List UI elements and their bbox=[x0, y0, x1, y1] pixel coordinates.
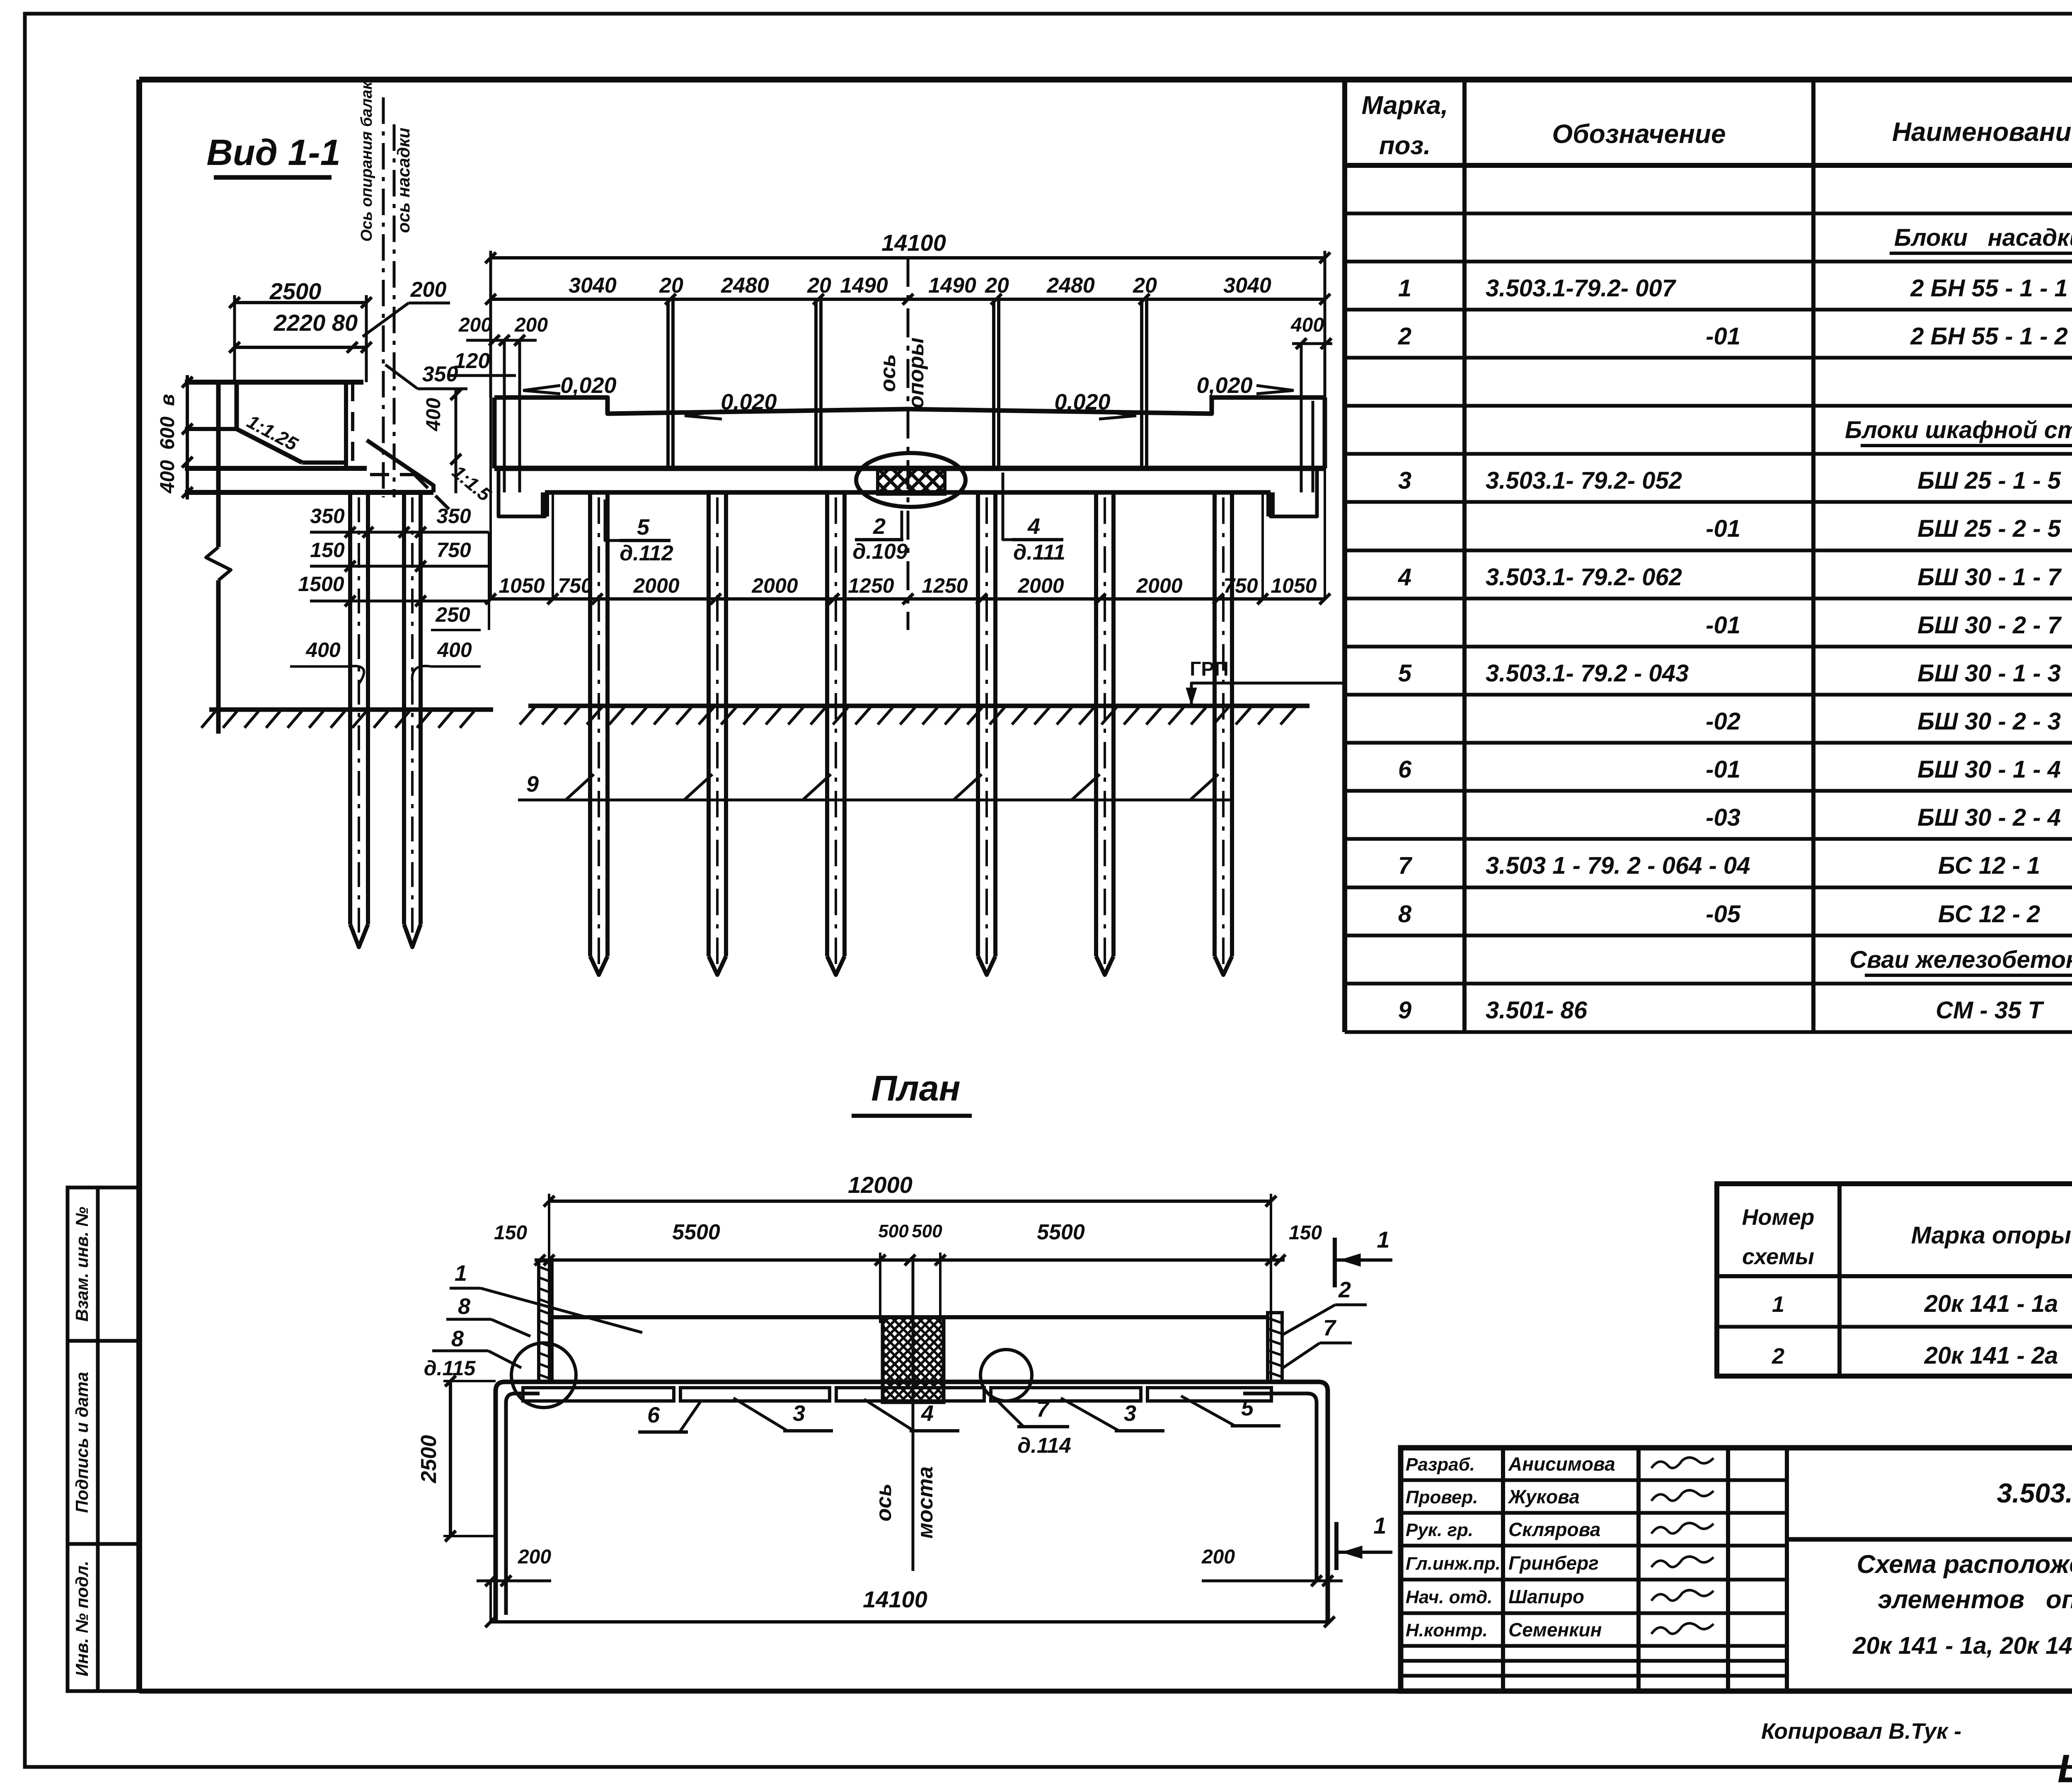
svg-text:БШ 30 - 2 - 4: БШ 30 - 2 - 4 bbox=[1917, 804, 2061, 831]
elev dim 14100 line bbox=[485, 251, 1330, 397]
svg-text:2500: 2500 bbox=[269, 278, 322, 304]
elev end block right bbox=[1271, 468, 1317, 516]
svg-text:250: 250 bbox=[435, 603, 470, 626]
svg-text:-03: -03 bbox=[1706, 804, 1740, 831]
svg-text:1: 1 bbox=[1373, 1512, 1386, 1539]
elev cap right edge bbox=[1323, 397, 1327, 468]
axis os nasadki bbox=[394, 124, 413, 497]
vid section cap bottom bbox=[185, 466, 367, 471]
svg-text:3: 3 bbox=[1398, 467, 1411, 494]
plan left end block hatched bbox=[539, 1261, 552, 1382]
title block signature labels bbox=[1406, 1453, 1615, 1641]
svg-text:350: 350 bbox=[422, 362, 458, 386]
spec row 6a bbox=[1706, 804, 2072, 831]
vid hidden dashes horizontal bbox=[370, 473, 414, 476]
svg-text:Семенкин: Семенкин bbox=[1508, 1619, 1602, 1641]
svg-text:2480: 2480 bbox=[721, 274, 769, 298]
plan pos label 7 right bbox=[1283, 1316, 1352, 1368]
svg-text:Схема расположения: Схема расположения bbox=[1857, 1550, 2072, 1579]
svg-text:2500: 2500 bbox=[417, 1435, 441, 1483]
elev pile 2 bbox=[709, 492, 726, 975]
svg-text:750: 750 bbox=[436, 538, 471, 562]
svg-text:1: 1 bbox=[1772, 1292, 1784, 1317]
elev pile 5 bbox=[1096, 492, 1113, 975]
plan pos label 3 left bbox=[733, 1398, 833, 1431]
svg-text:д.109: д.109 bbox=[852, 540, 908, 564]
svg-text:20к 141 - 1а: 20к 141 - 1а bbox=[1924, 1290, 2058, 1317]
schema table header texts bbox=[1742, 1205, 2072, 1269]
vid section step level line bbox=[185, 427, 237, 431]
svg-text:400: 400 bbox=[157, 460, 179, 494]
svg-text:1: 1 bbox=[1377, 1226, 1389, 1253]
vid leader 200 bbox=[363, 278, 450, 337]
spec row 4 bbox=[1398, 564, 2072, 591]
svg-text:3.503.1- 79.2 - 043: 3.503.1- 79.2 - 043 bbox=[1486, 660, 1689, 687]
plan back wall line bbox=[549, 1315, 1268, 1319]
svg-text:опоры: опоры bbox=[904, 337, 928, 408]
plan center hatched block bbox=[787, 1317, 1029, 1402]
svg-text:Марка опоры: Марка опоры bbox=[1911, 1222, 2071, 1249]
svg-text:План: План bbox=[871, 1069, 960, 1108]
elev dim segments line bbox=[485, 294, 1330, 305]
svg-text:2480: 2480 bbox=[1046, 274, 1095, 298]
vid section ledge line bbox=[302, 460, 347, 465]
plan outer outline bbox=[496, 1382, 1328, 1622]
plan detail circle right bbox=[980, 1350, 1032, 1401]
left margin box divider y=3235 bbox=[68, 1339, 139, 1343]
svg-text:ось: ось bbox=[872, 1483, 896, 1522]
elev label 9 line bbox=[518, 772, 1231, 800]
svg-text:7: 7 bbox=[1323, 1316, 1337, 1340]
svg-text:2: 2 bbox=[1338, 1277, 1351, 1302]
plan section marker top bbox=[1335, 1226, 1392, 1287]
spec row 6 bbox=[1398, 756, 2072, 783]
schema table verticals bbox=[1840, 1184, 2072, 1376]
svg-text:400: 400 bbox=[1290, 314, 1324, 336]
elev slope label 2 bbox=[685, 390, 777, 419]
svg-text:8: 8 bbox=[451, 1326, 464, 1351]
svg-text:750: 750 bbox=[1223, 574, 1258, 597]
svg-text:400: 400 bbox=[423, 398, 445, 431]
elev shelf band bottom bbox=[545, 490, 1271, 495]
elev cap bottom bbox=[494, 466, 1325, 471]
vid section slope 1-1.25 bbox=[237, 429, 302, 463]
left margin box divider y=3725 bbox=[68, 1542, 139, 1546]
svg-text:д.114: д.114 bbox=[1017, 1434, 1071, 1458]
svg-text:3040: 3040 bbox=[569, 274, 617, 298]
vid solid slope bbox=[367, 440, 433, 492]
svg-text:ось: ось bbox=[876, 354, 900, 392]
vid ground line bbox=[201, 710, 493, 728]
svg-text:200: 200 bbox=[518, 1546, 551, 1568]
svg-text:6: 6 bbox=[1398, 756, 1412, 783]
svg-text:400: 400 bbox=[305, 638, 341, 662]
svg-text:1: 1 bbox=[1398, 275, 1411, 302]
elev left end dims 200 200 bbox=[458, 314, 548, 492]
svg-text:0,020: 0,020 bbox=[1196, 373, 1252, 398]
elev cap top outline bbox=[494, 397, 1325, 414]
svg-text:1250: 1250 bbox=[848, 574, 894, 597]
svg-text:БШ 30 - 1 - 4: БШ 30 - 1 - 4 bbox=[1917, 756, 2061, 783]
svg-text:1050: 1050 bbox=[499, 574, 545, 597]
spec table header texts bbox=[1362, 80, 2072, 160]
svg-text:Инв. № подл.: Инв. № подл. bbox=[72, 1561, 92, 1676]
svg-text:500: 500 bbox=[878, 1221, 909, 1241]
plan section marker bottom bbox=[1336, 1512, 1392, 1570]
elev center hatched block bbox=[850, 468, 974, 494]
svg-text:Провер.: Провер. bbox=[1406, 1487, 1478, 1507]
svg-text:2000: 2000 bbox=[1136, 574, 1182, 597]
spec row group heading Bloki nasadki bbox=[1890, 224, 2072, 253]
svg-text:Блоки шкафной стенки: Блоки шкафной стенки bbox=[1845, 417, 2072, 443]
svg-text:Вид 1-1: Вид 1-1 bbox=[206, 132, 340, 173]
plan right end block hatched bbox=[1268, 1313, 1282, 1382]
left margin box divider x=236 bbox=[96, 1187, 100, 1691]
plan detail circle left bbox=[511, 1343, 576, 1408]
spec row 4a bbox=[1706, 612, 2072, 639]
svg-text:1050: 1050 bbox=[1271, 574, 1317, 597]
svg-text:3.503.1-79.1-014: 3.503.1-79.1-014 bbox=[1997, 1478, 2072, 1508]
spec row 9 bbox=[1398, 997, 2072, 1024]
svg-text:7: 7 bbox=[1036, 1397, 1050, 1422]
svg-text:2 БН 55 - 1 - 1: 2 БН 55 - 1 - 1 bbox=[1910, 275, 2068, 302]
svg-text:д.115: д.115 bbox=[424, 1357, 476, 1380]
svg-text:750: 750 bbox=[558, 574, 593, 597]
vid section left edge bbox=[216, 382, 221, 547]
svg-text:3: 3 bbox=[793, 1401, 805, 1426]
title block left row lines bbox=[1401, 1480, 1787, 1676]
axis os opiraniya balok bbox=[358, 81, 383, 497]
elev pile 1 bbox=[590, 492, 608, 975]
plan title underline bbox=[852, 1114, 972, 1118]
svg-text:8: 8 bbox=[1398, 901, 1412, 928]
svg-text:Рук. гр.: Рук. гр. bbox=[1406, 1520, 1473, 1540]
svg-text:Анисимова: Анисимова bbox=[1508, 1453, 1615, 1475]
schema table row lines bbox=[1717, 1276, 2072, 1327]
spec table header bottom bbox=[1345, 163, 2072, 168]
svg-text:БС 12 - 1: БС 12 - 1 bbox=[1938, 852, 2041, 879]
svg-text:Блоки насадки: Блоки насадки bbox=[1894, 224, 2072, 251]
vid hidden slope 1:1.5 dashed bbox=[414, 475, 452, 512]
plan dim 200 right bbox=[1201, 1546, 1343, 1586]
elev slope label 3 bbox=[1054, 390, 1136, 419]
svg-text:1500: 1500 bbox=[298, 572, 344, 596]
svg-text:150: 150 bbox=[1289, 1222, 1322, 1244]
vid dim 150 750 line bbox=[310, 538, 489, 572]
svg-text:14100: 14100 bbox=[881, 230, 946, 256]
svg-text:БС 12 - 2: БС 12 - 2 bbox=[1938, 901, 2041, 928]
plan inner outline right bbox=[1243, 1393, 1317, 1581]
svg-text:-01: -01 bbox=[1706, 756, 1740, 783]
vid left dim labels bbox=[157, 394, 179, 494]
plan dim 200 left bbox=[477, 1546, 551, 1622]
elev cap left edge bbox=[492, 397, 497, 468]
svg-text:350: 350 bbox=[310, 504, 345, 528]
svg-text:0,020: 0,020 bbox=[721, 390, 777, 414]
vid dim 2220 80 text bbox=[274, 310, 358, 336]
svg-text:120: 120 bbox=[454, 349, 490, 373]
svg-text:-01: -01 bbox=[1706, 612, 1740, 639]
vid dim line 120 bbox=[450, 374, 516, 377]
svg-text:-02: -02 bbox=[1706, 708, 1740, 735]
drawing frame bottom line bbox=[139, 1689, 2072, 1694]
svg-text:БШ 25 - 1 - 5: БШ 25 - 1 - 5 bbox=[1917, 467, 2061, 494]
vid dim 2220 line bbox=[229, 342, 372, 353]
drawing frame top line bbox=[139, 77, 2072, 82]
svg-text:200: 200 bbox=[1201, 1546, 1235, 1568]
svg-text:5: 5 bbox=[1398, 660, 1412, 687]
svg-text:Марка,: Марка, bbox=[1362, 91, 1448, 120]
svg-text:д.111: д.111 bbox=[1013, 540, 1065, 565]
vid dim 350 350 line bbox=[310, 504, 489, 538]
svg-text:1: 1 bbox=[455, 1261, 467, 1286]
spec row group heading Svai zhelezobetonnye bbox=[1849, 946, 2072, 975]
svg-text:200: 200 bbox=[410, 278, 447, 302]
plan pos label 5 bbox=[1181, 1396, 1280, 1426]
svg-text:БШ 30 - 2 - 7: БШ 30 - 2 - 7 bbox=[1917, 612, 2062, 639]
svg-text:1490: 1490 bbox=[928, 274, 976, 298]
plan pos label 7 d114 bbox=[995, 1397, 1071, 1458]
svg-text:Обозначение: Обозначение bbox=[1552, 119, 1726, 149]
vid dim 400 vertical right bbox=[423, 389, 461, 493]
vid section left edge lower bbox=[216, 580, 221, 734]
vid dim 1500 line bbox=[298, 572, 489, 606]
vid pile A bbox=[350, 492, 368, 947]
title block outline bbox=[1401, 1448, 2072, 1691]
spec table row lines bbox=[1345, 213, 2072, 1032]
svg-text:Копировал В.Тук -: Копировал В.Тук - bbox=[1761, 1719, 1961, 1744]
svg-text:2: 2 bbox=[1398, 323, 1411, 350]
elev label 2 d109 bbox=[852, 511, 908, 564]
title block signatures squiggles bbox=[1651, 1457, 1714, 1634]
vid section top edge bbox=[185, 380, 363, 385]
elev slope label 1 bbox=[523, 373, 617, 398]
svg-text:20: 20 bbox=[1133, 274, 1157, 298]
plan bridge axis bbox=[912, 1256, 915, 1571]
elev ground line bbox=[520, 706, 1310, 725]
elev pile 4 bbox=[978, 492, 995, 975]
svg-text:400: 400 bbox=[437, 638, 472, 662]
svg-text:2: 2 bbox=[1772, 1344, 1784, 1369]
vid 1-1 title underline bbox=[214, 175, 332, 180]
spec row 8 bbox=[1398, 901, 2072, 928]
svg-text:20: 20 bbox=[807, 274, 831, 298]
svg-text:200: 200 bbox=[514, 314, 548, 336]
plan pos label 6 bbox=[638, 1402, 700, 1432]
plan pos label 2 bbox=[1281, 1277, 1367, 1335]
plan dim 2500 bbox=[417, 1376, 496, 1541]
svg-text:4: 4 bbox=[1398, 564, 1411, 591]
elev shelf joint right bbox=[1268, 492, 1273, 516]
svg-text:5500: 5500 bbox=[672, 1220, 720, 1244]
svg-text:Подпись и дата: Подпись и дата bbox=[72, 1372, 92, 1513]
svg-text:-05: -05 bbox=[1706, 901, 1741, 928]
svg-text:2: 2 bbox=[873, 514, 886, 539]
spec row 3 bbox=[1398, 467, 2072, 494]
vid hidden dashed vertical bbox=[351, 382, 354, 461]
plan pos label 8 upper bbox=[446, 1294, 530, 1336]
svg-text:3.501- 86: 3.501- 86 bbox=[1486, 997, 1588, 1024]
svg-text:БШ 30 - 1 - 7: БШ 30 - 1 - 7 bbox=[1917, 564, 2062, 591]
spec row 3a bbox=[1706, 515, 2072, 542]
svg-text:в: в bbox=[157, 394, 179, 406]
svg-text:2000: 2000 bbox=[1017, 574, 1064, 597]
svg-text:Гринберг: Гринберг bbox=[1508, 1552, 1599, 1574]
plan pos label 3 right bbox=[1061, 1398, 1164, 1431]
svg-text:150: 150 bbox=[310, 538, 345, 562]
svg-text:500: 500 bbox=[912, 1221, 942, 1241]
svg-text:4: 4 bbox=[1027, 514, 1040, 539]
svg-text:поз.: поз. bbox=[1379, 131, 1431, 160]
elev right end dim 400 bbox=[1290, 314, 1332, 492]
svg-text:4: 4 bbox=[921, 1401, 934, 1426]
spec row 5 bbox=[1398, 660, 2072, 687]
plan dim 150 5500 500 500 5500 150 bbox=[494, 1220, 1322, 1323]
svg-text:80: 80 bbox=[332, 310, 358, 336]
svg-text:5: 5 bbox=[637, 515, 650, 540]
spec row 2 bbox=[1398, 323, 2072, 350]
elev pile 3 bbox=[827, 492, 845, 975]
svg-text:200: 200 bbox=[458, 314, 492, 336]
svg-text:150: 150 bbox=[494, 1222, 527, 1244]
svg-text:Номер: Номер bbox=[1742, 1205, 1815, 1230]
plan inner outline left bbox=[506, 1393, 540, 1615]
svg-text:5500: 5500 bbox=[1037, 1220, 1085, 1244]
svg-text:9: 9 bbox=[526, 772, 539, 797]
plan pos label 8 lower bbox=[432, 1326, 521, 1368]
spec row 1 bbox=[1398, 275, 2072, 302]
svg-text:1250: 1250 bbox=[922, 574, 968, 597]
vid section right edge upper bbox=[344, 382, 348, 468]
svg-text:2000: 2000 bbox=[633, 574, 679, 597]
svg-text:14100: 14100 bbox=[863, 1586, 927, 1612]
svg-text:Гл.инж.пр.: Гл.инж.пр. bbox=[1406, 1553, 1501, 1574]
svg-text:СМ - 35 Т: СМ - 35 Т bbox=[1936, 997, 2044, 1024]
vid section step vertical bbox=[235, 382, 239, 429]
svg-text:0,020: 0,020 bbox=[560, 373, 616, 398]
svg-text:20к 141 - 2а: 20к 141 - 2а bbox=[1924, 1342, 2058, 1369]
svg-text:600: 600 bbox=[157, 417, 179, 450]
elev label 4 d111 bbox=[1003, 473, 1065, 565]
svg-text:2000: 2000 bbox=[751, 574, 798, 597]
svg-text:350: 350 bbox=[436, 504, 471, 528]
plan axis label bbox=[872, 1466, 937, 1539]
svg-text:ось насадки: ось насадки bbox=[394, 128, 413, 233]
svg-text:Взам. инв. №: Взам. инв. № bbox=[72, 1207, 92, 1321]
svg-text:3: 3 bbox=[1124, 1401, 1136, 1426]
svg-text:Ось опирания балак: Ось опирания балак bbox=[358, 81, 375, 242]
svg-text:3.503 1 - 79. 2 - 064 - 04: 3.503 1 - 79. 2 - 064 - 04 bbox=[1486, 852, 1750, 879]
svg-text:Сваи железобетонные: Сваи железобетонные bbox=[1849, 946, 2072, 973]
vid section break zigzag bbox=[206, 547, 231, 580]
svg-text:2 БН 55 - 1 - 2: 2 БН 55 - 1 - 2 bbox=[1910, 323, 2068, 350]
spec table verticals bbox=[1345, 80, 2072, 1032]
plan dim 14100 bbox=[485, 1586, 1335, 1627]
svg-text:3.503.1- 79.2- 062: 3.503.1- 79.2- 062 bbox=[1486, 564, 1682, 591]
elev slope label 4 bbox=[1196, 373, 1294, 398]
svg-text:3.503.1- 79.2- 052: 3.503.1- 79.2- 052 bbox=[1486, 467, 1682, 494]
vid section band bottom bbox=[185, 490, 433, 495]
elev shelf joint left bbox=[542, 492, 547, 516]
svg-text:9: 9 bbox=[1398, 997, 1411, 1024]
svg-text:Жукова: Жукова bbox=[1508, 1486, 1580, 1507]
svg-text:Разраб.: Разраб. bbox=[1406, 1454, 1475, 1475]
vid labels 400 400 piles bbox=[290, 638, 481, 684]
svg-text:Н.контр.: Н.контр. bbox=[1406, 1620, 1488, 1641]
svg-text:3.503.1-79.2- 007: 3.503.1-79.2- 007 bbox=[1486, 275, 1677, 302]
svg-text:Ц 00632-02: Ц 00632-02 bbox=[2057, 1747, 2072, 1784]
vid leader 350 bbox=[385, 362, 467, 389]
left margin boxes outline bbox=[68, 1187, 139, 1691]
svg-text:Склярова: Склярова bbox=[1508, 1519, 1600, 1540]
svg-text:моста: моста bbox=[913, 1466, 937, 1539]
svg-text:20: 20 bbox=[659, 274, 683, 298]
elev label GRP bbox=[1186, 658, 1346, 706]
title block verticals left section bbox=[1503, 1448, 1787, 1691]
svg-text:Шапиро: Шапиро bbox=[1508, 1586, 1584, 1607]
svg-text:1490: 1490 bbox=[840, 274, 888, 298]
svg-text:12000: 12000 bbox=[848, 1172, 913, 1198]
plan pos label 4 bbox=[864, 1399, 959, 1431]
svg-text:5: 5 bbox=[1241, 1396, 1254, 1420]
svg-text:-01: -01 bbox=[1706, 323, 1740, 350]
spec row group heading Bloki shkafnoy stenki bbox=[1845, 417, 2072, 446]
svg-text:8: 8 bbox=[458, 1294, 470, 1319]
svg-text:схемы: схемы bbox=[1742, 1244, 1814, 1269]
plan dim 12000 bbox=[544, 1172, 1276, 1383]
elev pile 6 bbox=[1215, 492, 1232, 975]
plan pos label 1 bbox=[450, 1261, 642, 1333]
vid dim 250 label bbox=[431, 532, 489, 630]
schema table outline bbox=[1717, 1184, 2072, 1376]
svg-text:7: 7 bbox=[1398, 852, 1413, 879]
elev pier axis bbox=[907, 258, 910, 630]
elev label 5 d112 bbox=[605, 499, 673, 565]
vid left dim chain line bbox=[182, 375, 193, 499]
svg-text:БШ 30 - 1 - 3: БШ 30 - 1 - 3 bbox=[1917, 660, 2061, 687]
svg-text:элементов опор: элементов опор bbox=[1878, 1585, 2072, 1614]
svg-text:3040: 3040 bbox=[1223, 274, 1271, 298]
elev joint lines bbox=[668, 299, 1147, 468]
svg-text:2220: 2220 bbox=[274, 310, 326, 336]
vid dim 2500 line bbox=[229, 295, 372, 382]
schema table row 2 bbox=[1772, 1342, 2072, 1369]
elev lower dim line bbox=[485, 397, 1330, 604]
elev lower dim texts bbox=[499, 574, 1317, 597]
elev dim segment texts bbox=[569, 274, 1271, 298]
svg-text:Наименование: Наименование bbox=[1892, 117, 2072, 147]
elev end block left bbox=[499, 468, 545, 516]
svg-text:БШ 30 - 2 - 3: БШ 30 - 2 - 3 bbox=[1917, 708, 2061, 735]
elev detail oval bbox=[856, 453, 966, 507]
elev axis label os opory bbox=[876, 337, 928, 408]
plan pos label d115 bbox=[424, 1357, 476, 1380]
vid pile B bbox=[404, 492, 421, 947]
spec row 7 bbox=[1398, 852, 2072, 879]
spec row 5a bbox=[1706, 708, 2072, 735]
svg-text:ГРП: ГРП bbox=[1190, 658, 1229, 680]
plan cap block segments bbox=[523, 1388, 1271, 1401]
svg-text:-01: -01 bbox=[1706, 515, 1740, 542]
svg-text:20к 141 - 1а, 20к 141 - 2а: 20к 141 - 1а, 20к 141 - 2а bbox=[1852, 1632, 2072, 1659]
svg-text:6: 6 bbox=[647, 1403, 660, 1427]
title block middle divider bbox=[1787, 1537, 2072, 1542]
svg-text:Нач. отд.: Нач. отд. bbox=[1406, 1587, 1493, 1607]
svg-text:20: 20 bbox=[985, 274, 1009, 298]
svg-text:БШ 25 - 2 - 5: БШ 25 - 2 - 5 bbox=[1917, 515, 2061, 542]
svg-text:д.112: д.112 bbox=[620, 541, 673, 565]
schema table row 1 bbox=[1772, 1290, 2072, 1317]
